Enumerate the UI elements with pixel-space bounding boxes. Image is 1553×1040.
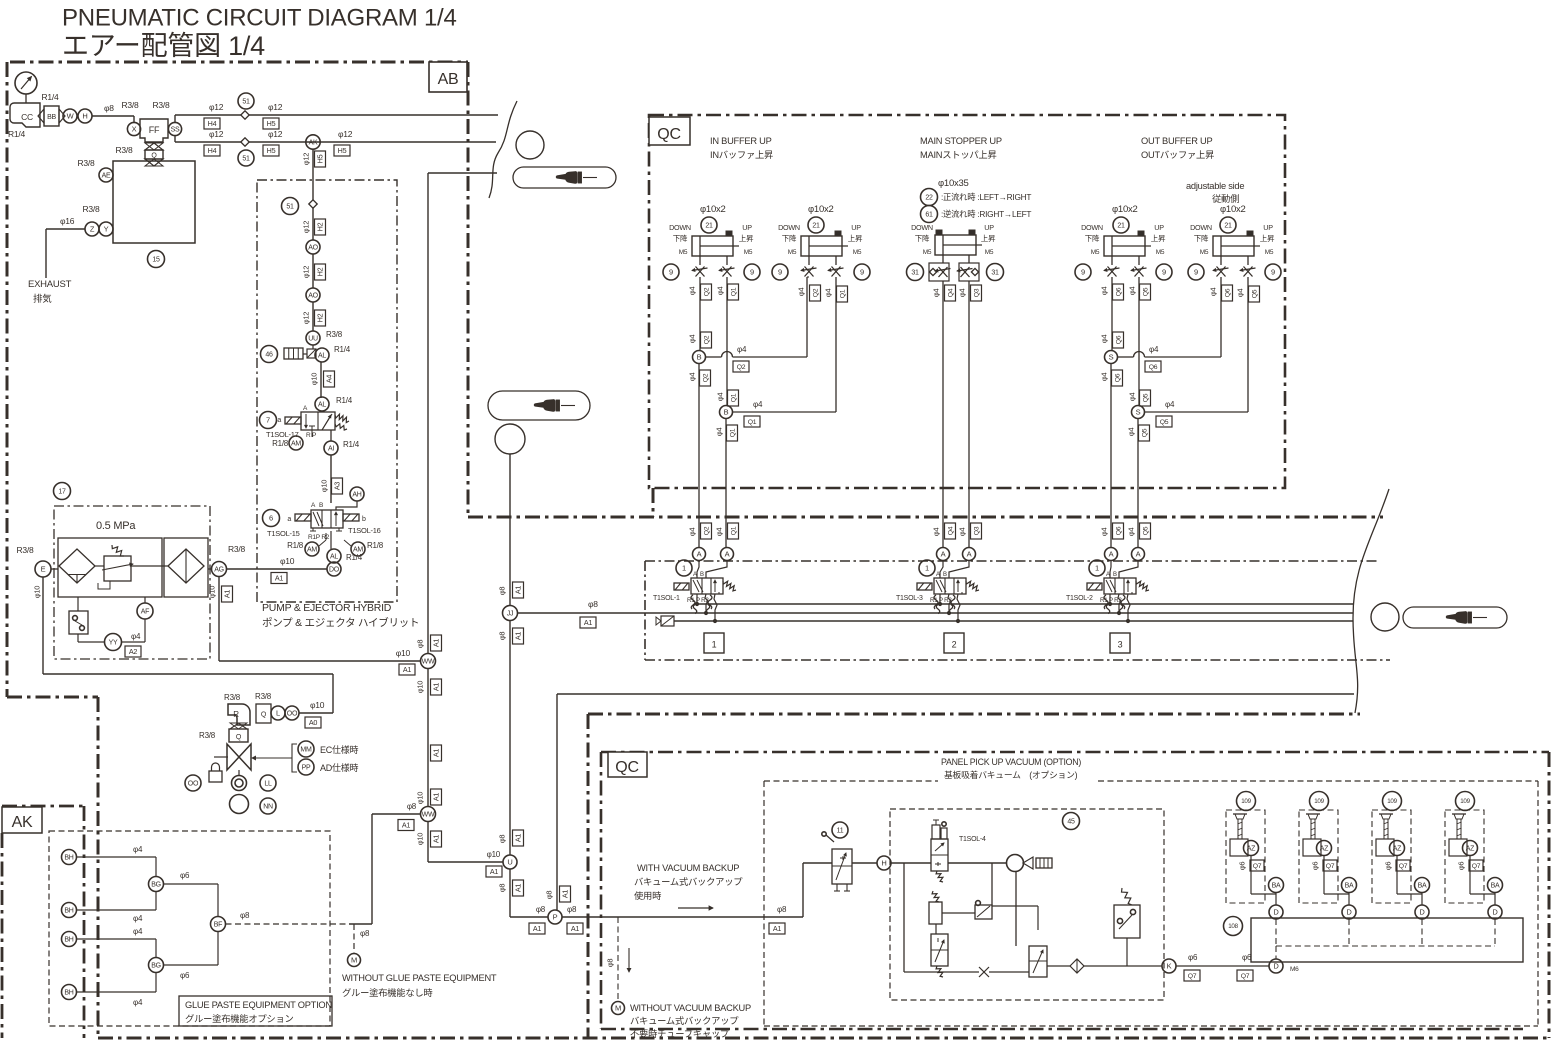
- outer boundary AB right edge: [467, 62, 470, 517]
- svg-text:D: D: [1492, 908, 1498, 917]
- wire WW2 down to U: [416, 821, 503, 862]
- svg-text:上昇: 上昇: [739, 234, 754, 243]
- svg-text:φ10: φ10: [208, 586, 217, 599]
- svg-text:φ6: φ6: [1311, 862, 1320, 871]
- svg-text:DO: DO: [329, 567, 340, 574]
- svg-text:MM: MM: [300, 747, 312, 754]
- svg-text:下降: 下降: [673, 233, 688, 243]
- svg-text:φ4: φ4: [1128, 287, 1137, 296]
- svg-text:PNEUMATIC CIRCUIT DIAGRAM 1/4: PNEUMATIC CIRCUIT DIAGRAM 1/4: [62, 5, 457, 32]
- label IN BUFFER UP: [710, 136, 773, 160]
- svg-text:Q7: Q7: [1472, 863, 1481, 870]
- node BF: [211, 917, 226, 932]
- svg-text:φ4: φ4: [1236, 289, 1245, 298]
- node BG1: [149, 877, 164, 892]
- svg-text:φ12: φ12: [302, 312, 311, 325]
- svg-text:A1: A1: [432, 749, 441, 758]
- fitting Q small: [256, 704, 271, 723]
- svg-text:Q6: Q6: [1114, 373, 1121, 382]
- svg-text:1: 1: [925, 564, 929, 573]
- svg-text:φ12: φ12: [268, 102, 283, 112]
- svg-text:BG: BG: [151, 963, 161, 970]
- svg-text:A1: A1: [514, 632, 523, 641]
- manifold valve T1SOL-2: [1066, 548, 1149, 623]
- svg-text:φ4: φ4: [1100, 528, 1109, 537]
- node AE: [78, 158, 113, 182]
- svg-text:Q6: Q6: [1224, 288, 1231, 297]
- svg-text:OUTバッファ上昇: OUTバッファ上昇: [1141, 150, 1214, 160]
- circle 9 IN2 left: [772, 264, 788, 280]
- break curve top-left: [489, 101, 517, 198]
- wire WW down: [428, 668, 442, 807]
- wire v6 to AL: [330, 531, 332, 549]
- svg-text:φ10x2: φ10x2: [1220, 204, 1246, 215]
- circle 9 OUT1 right: [1156, 264, 1172, 280]
- svg-text:T1SOL-1: T1SOL-1: [653, 595, 680, 602]
- label MAIN STOPPER UP: [920, 136, 1002, 160]
- svg-text:T1SOL-2: T1SOL-2: [1066, 595, 1093, 602]
- svg-text:A: A: [1109, 550, 1114, 559]
- svg-text:R1/8: R1/8: [367, 541, 384, 550]
- svg-text:P: P: [553, 913, 558, 922]
- svg-text:51: 51: [242, 99, 250, 106]
- svg-text:H5: H5: [338, 146, 347, 155]
- circle 9 IN1 left: [663, 264, 679, 280]
- coupler BB: [38, 106, 65, 126]
- svg-text:X: X: [132, 125, 137, 134]
- node BA #3: [1415, 878, 1430, 893]
- node P: [548, 910, 562, 924]
- svg-text:使用時: 使用時: [634, 890, 661, 901]
- svg-text:109: 109: [1387, 798, 1397, 805]
- label phi12 H2 vertical a: [302, 219, 326, 235]
- svg-text:9: 9: [860, 268, 864, 277]
- svg-text:9: 9: [778, 268, 782, 277]
- wire AI down: [330, 455, 332, 503]
- svg-text:φ8: φ8: [777, 905, 787, 914]
- svg-text:H4: H4: [208, 146, 217, 155]
- svg-text:M5: M5: [1156, 249, 1165, 256]
- svg-text:AK: AK: [309, 140, 318, 147]
- node BA #2: [1342, 878, 1357, 893]
- svg-text:A1: A1: [773, 924, 782, 933]
- wire IN1 up-line: [716, 277, 739, 406]
- svg-text:Q: Q: [261, 712, 267, 719]
- svg-text:基板吸着バキューム (オプション): 基板吸着バキューム (オプション): [944, 769, 1078, 780]
- pump CC body: [10, 103, 40, 127]
- svg-text:φ4: φ4: [1100, 335, 1109, 344]
- node BH1: [62, 850, 77, 865]
- svg-text:1: 1: [1095, 564, 1099, 573]
- svg-text:WITHOUT VACUUM BACKUP: WITHOUT VACUUM BACKUP: [630, 1003, 751, 1013]
- labels IN2: [797, 285, 848, 302]
- valve T1SOL-17: [277, 405, 349, 430]
- label phi12 H4 top: [204, 102, 224, 129]
- svg-text:H: H: [881, 859, 886, 868]
- svg-text:PP: PP: [302, 765, 311, 772]
- check-throttle MAIN left: [929, 255, 951, 281]
- svg-text:31: 31: [911, 270, 919, 277]
- svg-text:9: 9: [1194, 268, 1198, 277]
- labels P: [529, 905, 583, 934]
- svg-text:D: D: [1273, 962, 1279, 971]
- shutoff valve X: [227, 744, 251, 770]
- circle 17: [54, 483, 71, 500]
- svg-text:φ6: φ6: [180, 871, 190, 880]
- wire WW2 left branch: [349, 814, 421, 924]
- svg-text:A1: A1: [561, 890, 570, 899]
- labels WW2: [398, 789, 442, 831]
- manifold dashed internals: [1276, 919, 1495, 946]
- svg-text:BF: BF: [214, 922, 222, 929]
- filter FF: [140, 119, 168, 142]
- label phi12 H2 vertical b: [302, 264, 326, 280]
- junction diamond 51 column: [282, 198, 318, 215]
- node AI: [324, 430, 360, 455]
- label 0.5 MPa: [96, 520, 136, 532]
- node AG: [208, 544, 245, 577]
- svg-text:UP: UP: [1263, 223, 1273, 232]
- node D bottom: [1269, 959, 1299, 973]
- svg-text:φ4: φ4: [737, 345, 747, 354]
- flow control IN1 up: [719, 256, 735, 277]
- labels above manifold valve2: [932, 523, 982, 539]
- wire S1 right: [1118, 277, 1222, 372]
- svg-text:φ4: φ4: [688, 528, 697, 537]
- svg-text:φ4: φ4: [133, 927, 143, 936]
- svg-text:H5: H5: [316, 154, 325, 163]
- svg-text:φ6: φ6: [1238, 862, 1247, 871]
- svg-text:M5: M5: [679, 249, 688, 256]
- label R1/4: [42, 92, 59, 102]
- svg-text:109: 109: [1314, 798, 1324, 805]
- svg-text:下降: 下降: [1194, 233, 1209, 243]
- svg-text:AE: AE: [102, 173, 111, 180]
- svg-text:R1/4: R1/4: [336, 396, 353, 405]
- svg-text:31: 31: [991, 270, 999, 277]
- suction unit 109 #2: [1299, 792, 1349, 904]
- svg-text:B: B: [700, 572, 704, 578]
- wire S1 down: [1100, 364, 1123, 548]
- svg-text:R: R: [233, 710, 239, 719]
- svg-text:φ4: φ4: [1165, 400, 1175, 409]
- svg-text:M5: M5: [788, 249, 797, 256]
- svg-text:BA: BA: [1272, 883, 1281, 890]
- station box 1: [704, 633, 724, 653]
- svg-text:109: 109: [1241, 798, 1251, 805]
- 45 dashed box: [890, 809, 1164, 1000]
- svg-text:φ4: φ4: [1127, 528, 1136, 537]
- svg-text:φ12: φ12: [302, 153, 311, 166]
- pump column dash-dot box: [257, 180, 397, 602]
- svg-text:Q6: Q6: [1149, 364, 1158, 371]
- svg-text:φ8: φ8: [498, 835, 507, 844]
- svg-text:A1: A1: [432, 683, 441, 692]
- svg-text:φ10x35: φ10x35: [938, 178, 969, 189]
- svg-text:φ4: φ4: [715, 528, 724, 537]
- label R3/8 SS: [153, 100, 170, 110]
- svg-text:M: M: [615, 1004, 621, 1013]
- svg-text:φ4: φ4: [824, 289, 833, 298]
- svg-text:A1: A1: [514, 834, 523, 843]
- svg-text:OO: OO: [188, 781, 199, 788]
- svg-text:R3/8: R3/8: [78, 158, 95, 168]
- svg-text:エアー配管図 1/4: エアー配管図 1/4: [62, 31, 265, 61]
- svg-text:グルー塗布機能オプション: グルー塗布機能オプション: [185, 1013, 294, 1024]
- svg-text:CC: CC: [21, 112, 33, 122]
- wire B2 down: [715, 419, 738, 548]
- svg-text:T1SOL-17: T1SOL-17: [266, 430, 299, 439]
- svg-text:b: b: [362, 516, 366, 523]
- svg-text:A1: A1: [514, 884, 523, 893]
- svg-text:φ12: φ12: [268, 129, 283, 139]
- svg-text:φ8: φ8: [360, 929, 370, 938]
- svg-text:A1: A1: [432, 639, 441, 648]
- node H: [78, 109, 92, 123]
- svg-text:21: 21: [705, 223, 713, 230]
- svg-text:45: 45: [1067, 819, 1075, 826]
- svg-text:OUT BUFFER UP: OUT BUFFER UP: [1141, 136, 1213, 146]
- label phi4 Q labels above manifold valve1: [688, 523, 739, 539]
- svg-text:0.5 MPa: 0.5 MPa: [96, 520, 136, 532]
- node K: [1084, 959, 1176, 973]
- svg-text:Q6: Q6: [1115, 287, 1122, 296]
- AK dash-dot box: [2, 806, 84, 1038]
- svg-text:Q7: Q7: [1188, 973, 1197, 980]
- svg-text:M5: M5: [1091, 249, 1100, 256]
- node D #4: [1488, 893, 1502, 920]
- svg-text:IN BUFFER UP: IN BUFFER UP: [710, 136, 772, 146]
- svg-text:adjustable side: adjustable side: [1186, 181, 1244, 191]
- svg-text:Q7: Q7: [1326, 863, 1335, 870]
- svg-text:Q5: Q5: [1141, 428, 1148, 437]
- svg-text:UP: UP: [1154, 223, 1164, 232]
- glue option label box: [179, 996, 332, 1026]
- svg-text:R3/8: R3/8: [83, 204, 100, 214]
- title line 1: [62, 5, 457, 32]
- node BH3: [62, 932, 77, 947]
- svg-text:M5: M5: [1200, 249, 1209, 256]
- svg-text:φ10x2: φ10x2: [1112, 204, 1138, 215]
- svg-text:φ4: φ4: [1128, 393, 1137, 402]
- svg-text:φ8: φ8: [606, 959, 615, 968]
- svg-text:YY: YY: [109, 640, 118, 647]
- svg-text:R1/8: R1/8: [287, 541, 304, 550]
- svg-text:φ4: φ4: [716, 393, 725, 402]
- svg-text:φ4: φ4: [133, 845, 143, 854]
- wire top connector corner: [428, 173, 497, 654]
- node M glue: [348, 954, 361, 967]
- label R3/8 Q: [116, 145, 133, 155]
- svg-text:Q5: Q5: [1160, 419, 1169, 426]
- manifold dash-dot box: [645, 561, 1390, 660]
- svg-text:AO: AO: [308, 293, 318, 300]
- svg-text:B: B: [1113, 572, 1117, 578]
- wire lower bus: [904, 971, 979, 973]
- wire FRL internal: [95, 565, 168, 567]
- svg-text:φ4: φ4: [1149, 345, 1159, 354]
- wire E branch: [33, 577, 333, 713]
- svg-text:φ6: φ6: [1384, 862, 1393, 871]
- circle 22 note: [921, 189, 1032, 206]
- mid regulator: [929, 891, 975, 934]
- node H vacuum: [852, 856, 931, 870]
- svg-text::正流れ時 :LEFT→RIGHT: :正流れ時 :LEFT→RIGHT: [941, 192, 1031, 202]
- wire B1 down: [688, 364, 711, 548]
- throttle X symbol: [979, 967, 1029, 977]
- svg-text:下降: 下降: [915, 233, 930, 243]
- labels below WW: [416, 679, 442, 695]
- svg-text:M6: M6: [1290, 966, 1299, 973]
- svg-text:B: B: [319, 502, 323, 509]
- outer boundary lower-left edge: [97, 697, 100, 1038]
- svg-text:φ4: φ4: [797, 288, 806, 297]
- svg-text:A1: A1: [432, 835, 441, 844]
- check diamond vacuum: [1047, 959, 1084, 973]
- svg-text:H2: H2: [316, 222, 325, 231]
- wire IN1 down-line: [688, 277, 712, 351]
- svg-text:A1: A1: [514, 586, 523, 595]
- svg-text:φ4: φ4: [932, 528, 941, 537]
- svg-text:INバッファ上昇: INバッファ上昇: [710, 150, 773, 160]
- node WW2: [421, 807, 436, 822]
- svg-text:AG: AG: [214, 567, 224, 574]
- svg-text:T1SOL-4: T1SOL-4: [959, 836, 986, 843]
- svg-text:R3/8: R3/8: [326, 330, 343, 339]
- svg-text:AL: AL: [330, 554, 338, 561]
- node JJ: [503, 606, 518, 621]
- svg-text:EC仕様時: EC仕様時: [320, 744, 359, 755]
- 3-way valve vacuum: [1016, 872, 1047, 977]
- svg-text:A1: A1: [533, 924, 542, 933]
- svg-text:AL: AL: [318, 402, 326, 409]
- svg-text:A: A: [1106, 572, 1110, 578]
- svg-text:バキューム式バックアップ: バキューム式バックアップ: [630, 1015, 739, 1026]
- node DO: [327, 562, 341, 576]
- circle 9 OUT1 left: [1075, 264, 1091, 280]
- label T1SOL-16: [348, 526, 381, 535]
- svg-text:B: B: [697, 353, 702, 362]
- svg-text:R1/4: R1/4: [343, 440, 360, 449]
- circle 7: [260, 412, 277, 429]
- svg-text:B: B: [724, 408, 729, 417]
- node AK on line: [306, 135, 320, 149]
- elbow R: [228, 704, 250, 725]
- wire MAIN up-line: [958, 281, 982, 547]
- svg-text:SS: SS: [171, 127, 180, 134]
- circle 9 OUT2 left: [1188, 264, 1204, 280]
- svg-text:AZ: AZ: [1247, 846, 1256, 853]
- svg-text:Q5: Q5: [1142, 287, 1149, 296]
- node U: [503, 855, 517, 869]
- svg-text:R3/8: R3/8: [153, 100, 170, 110]
- svg-text:Q5: Q5: [1251, 289, 1258, 298]
- svg-text:AD仕様時: AD仕様時: [320, 762, 359, 773]
- cylinder OUT buffer 1: [1081, 204, 1166, 256]
- svg-text:φ10x2: φ10x2: [808, 204, 834, 215]
- svg-text:A: A: [725, 550, 730, 559]
- svg-text:φ10: φ10: [33, 586, 42, 599]
- label WITHOUT GLUE PASTE EQUIPMENT: [342, 973, 497, 998]
- suction unit 109 #3: [1372, 792, 1422, 904]
- svg-text:2: 2: [952, 640, 957, 650]
- regulator: [98, 545, 133, 589]
- svg-text:φ8: φ8: [240, 911, 250, 920]
- svg-text:φ4: φ4: [133, 914, 143, 923]
- svg-text:φ10: φ10: [320, 480, 329, 493]
- manifold valve T1SOL-1: [653, 548, 736, 623]
- svg-text:R3/8: R3/8: [122, 100, 139, 110]
- exhaust wire phi16: [46, 216, 85, 278]
- svg-text:GLUE PASTE EQUIPMENT OPTION: GLUE PASTE EQUIPMENT OPTION: [185, 1000, 332, 1010]
- svg-text:φ8: φ8: [416, 640, 425, 649]
- svg-text:H2: H2: [316, 313, 325, 322]
- node BH4: [62, 985, 77, 1000]
- label phi12 H2 vertical c: [302, 310, 326, 326]
- svg-text:109: 109: [1460, 798, 1470, 805]
- labels JJ: [498, 582, 524, 644]
- connector stadium top: [513, 167, 616, 188]
- svg-text:QC: QC: [615, 759, 639, 776]
- label phi10 A0: [305, 700, 325, 728]
- filter diamond 1: [59, 549, 95, 583]
- label T1SOL-17: [266, 430, 299, 439]
- svg-text:A: A: [697, 550, 702, 559]
- svg-text:BB: BB: [47, 114, 56, 121]
- title line 2 (Japanese): [62, 31, 265, 61]
- circle 61 note: [921, 206, 1032, 223]
- svg-text:AM: AM: [291, 441, 301, 448]
- glue dashed box: [49, 831, 330, 1026]
- svg-text:3: 3: [1118, 640, 1123, 650]
- svg-text:EXHAUST: EXHAUST: [28, 279, 72, 290]
- cylinder OUT buffer 2: [1190, 204, 1275, 256]
- node S1: [1105, 351, 1118, 364]
- QC lower dash-dot box: [601, 752, 1549, 1029]
- svg-text:9: 9: [1081, 268, 1085, 277]
- node AL2: [315, 396, 353, 411]
- node B2: [720, 406, 733, 419]
- label WITHOUT VACUUM BACKUP: [630, 1003, 751, 1039]
- connector circle middle: [495, 424, 525, 606]
- svg-text:Q1: Q1: [729, 428, 736, 437]
- svg-text:U: U: [507, 858, 512, 867]
- node BG2: [149, 958, 164, 973]
- svg-text:φ4: φ4: [688, 287, 697, 296]
- wire column segment 2: [312, 208, 314, 240]
- label phi12 H5 vertical: [302, 151, 326, 167]
- svg-text:UP: UP: [984, 223, 994, 232]
- outer boundary bottom edge: [98, 1037, 1549, 1040]
- svg-text:φ12: φ12: [209, 129, 224, 139]
- svg-text:Q3: Q3: [973, 526, 980, 535]
- svg-text:PANEL PICK UP VACUUM (OPTION): PANEL PICK UP VACUUM (OPTION): [941, 757, 1081, 767]
- svg-text:φ8: φ8: [498, 884, 507, 893]
- svg-text:D: D: [1346, 908, 1352, 917]
- svg-text:A1: A1: [584, 618, 593, 627]
- branch down from H line: [903, 863, 905, 972]
- wire K to D: [1176, 953, 1269, 981]
- svg-text:上昇: 上昇: [848, 234, 863, 243]
- label phi12 H5 after AK: [334, 129, 353, 156]
- svg-text:22: 22: [925, 195, 933, 202]
- label PUMP EJECTOR HYBRID: [262, 602, 419, 629]
- svg-text:グルー塗布機能なし時: グルー塗布機能なし時: [342, 987, 432, 998]
- svg-text:H5: H5: [267, 146, 276, 155]
- QC lower label box: [608, 752, 647, 777]
- svg-text:H4: H4: [208, 119, 217, 128]
- pressure gauge CC: [15, 72, 37, 103]
